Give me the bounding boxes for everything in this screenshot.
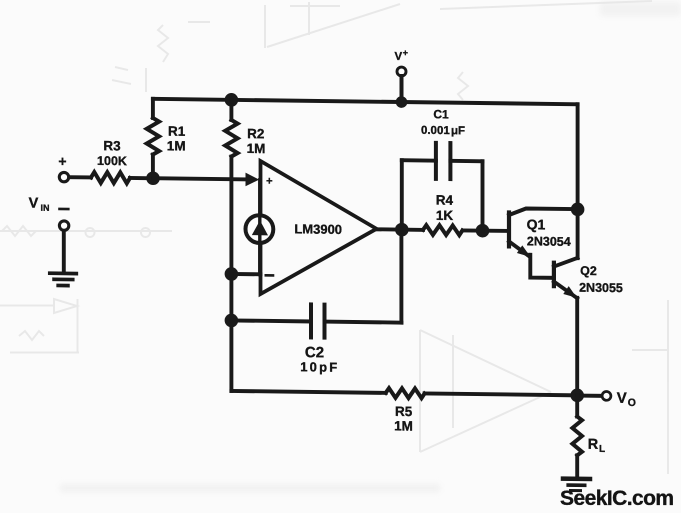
label V+	[395, 48, 408, 63]
label R2 1M	[247, 126, 266, 156]
terminal V+	[397, 67, 406, 76]
svg-text:+: +	[58, 153, 66, 169]
svg-text:IN: IN	[41, 203, 50, 213]
svg-text:1M: 1M	[394, 418, 413, 433]
resistor R3 (horizontal)	[91, 172, 130, 183]
svg-text:0.001μF: 0.001μF	[421, 125, 465, 138]
label − (input)	[60, 208, 69, 211]
capacitor C2 branch	[231, 320, 311, 321]
svg-text:100K: 100K	[97, 154, 127, 168]
node: junction dot R1/R3	[146, 171, 160, 185]
svg-text:R4: R4	[436, 193, 454, 208]
label Q2 2N3055	[579, 264, 623, 295]
wire: V+ stem	[400, 76, 404, 102]
label R1 1M	[167, 124, 186, 154]
wire: R4 to Q1 base	[463, 228, 509, 232]
svg-text:1K: 1K	[436, 208, 454, 223]
ground (output)	[563, 479, 590, 491]
capacitor C1 loop	[400, 160, 404, 229]
wire: to VO terminal	[577, 394, 601, 398]
terminal VO	[602, 391, 611, 400]
resistor R1 (vertical, V+ rail to input node)	[151, 99, 155, 118]
label C2 10pF	[300, 344, 339, 375]
resistor R4 (horizontal)	[423, 225, 462, 235]
wire: current-source vertical inside op-amp	[258, 180, 262, 274]
svg-text:R2: R2	[247, 126, 264, 141]
terminal Vin +	[59, 172, 68, 182]
svg-text:SeekIC.com: SeekIC.com	[560, 487, 674, 510]
wire: top supply rail	[153, 99, 578, 104]
label − (op-amp)	[266, 274, 273, 277]
label VO	[617, 390, 636, 409]
op-amp U1 LM3900 triangle	[261, 161, 377, 295]
label R5 1M	[394, 404, 413, 434]
label R4 1K	[436, 193, 454, 224]
svg-text:+: +	[266, 175, 272, 187]
wire: R3 to junction	[130, 176, 153, 180]
svg-text:L: L	[599, 444, 605, 455]
resistor R2 (vertical, V+ rail down)	[229, 100, 233, 120]
svg-text:+: +	[403, 48, 408, 58]
svg-text:10pF: 10pF	[300, 359, 339, 374]
current source symbol	[246, 215, 274, 243]
node: junction dot Q1/Q2 collector on right vertical	[571, 202, 585, 216]
svg-text:R3: R3	[103, 138, 121, 153]
node: junction dot V+ on rail	[396, 96, 408, 108]
wire: inverting node down to C2 node and bottom rail	[229, 274, 233, 391]
svg-text:R1: R1	[168, 124, 186, 139]
transistor Q1 2N3054	[507, 212, 511, 246]
svg-text:2N3054: 2N3054	[527, 234, 571, 249]
wire: bottom feedback rail	[231, 391, 385, 393]
wire: Vin − to ground	[62, 231, 66, 272]
label RL	[588, 437, 605, 455]
label C1 0.001uF	[421, 107, 465, 137]
main schematic (sheared like the scan)	[29, 43, 636, 491]
node: junction dot C2 node	[225, 314, 239, 328]
node: junction dot output VO	[570, 388, 584, 402]
node: junction dot output node	[395, 223, 409, 237]
node: junction dot R2 top on rail	[225, 93, 239, 107]
svg-text:V: V	[617, 390, 627, 407]
label + (input)	[58, 153, 66, 169]
arrow into + input	[246, 173, 260, 187]
svg-text:LM3900: LM3900	[294, 221, 342, 237]
label R3 100K	[97, 138, 127, 168]
terminal Vin −	[59, 221, 68, 231]
svg-text:2N3055: 2N3055	[579, 281, 623, 296]
svg-text:V: V	[395, 51, 403, 63]
wire: right vertical drop to Q1/Q2 collectors	[576, 104, 580, 258]
transistor Q2 2N3055	[552, 263, 556, 286]
node: junction dot inverting node	[225, 267, 239, 281]
svg-text:R5: R5	[395, 404, 413, 419]
resistor RL (vertical)	[575, 395, 579, 416]
ground (input)	[50, 273, 77, 285]
resistor R5 (horizontal)	[386, 388, 425, 398]
wire: Vin+ to R3	[69, 175, 91, 179]
svg-text:C1: C1	[433, 107, 449, 121]
wire: op-amp output to R4	[375, 227, 423, 232]
svg-text:Q1: Q1	[527, 216, 546, 232]
node: junction dot R4/C1 right	[476, 224, 490, 238]
svg-text:Q2: Q2	[580, 264, 597, 278]
label Q1 2N3054	[527, 216, 571, 249]
svg-text:1M: 1M	[247, 141, 266, 156]
label LM3900	[294, 221, 342, 237]
svg-text:R: R	[588, 437, 599, 453]
svg-text:O: O	[628, 397, 636, 409]
label + (op-amp)	[266, 175, 272, 187]
svg-text:V: V	[29, 196, 39, 212]
wire: R2 bottom to inverting node	[229, 157, 233, 274]
wire: Q2 emitter down to output	[575, 298, 579, 396]
svg-text:1M: 1M	[167, 138, 186, 153]
wire: junction to op-amp + input	[153, 178, 248, 179]
label VIN	[29, 196, 50, 213]
wire: inverting input	[231, 272, 260, 276]
